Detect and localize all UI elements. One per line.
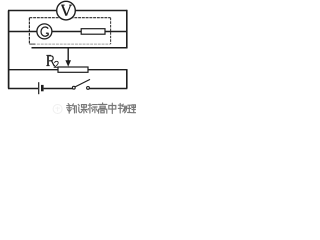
switch S [72,79,90,89]
wire resistor to right [105,31,127,33]
wire left vertical [8,11,10,89]
wire R2 left [8,69,58,71]
slider arrow of R2 [65,48,71,67]
label R2 [46,55,59,67]
galvanometer G [37,24,52,39]
potentiometer R2 box [58,67,88,72]
char xin [67,104,77,114]
wire G row left [8,31,37,33]
dashed box (voltmeter under calibration) [29,18,110,44]
wire switch to right [89,88,127,90]
wire right vertical upper [126,10,128,49]
wire middle (slider feed) [32,47,128,49]
char zhong [109,103,116,113]
wire right vertical lower [126,69,128,88]
char li [128,105,136,113]
char wu [118,103,127,113]
battery [39,82,43,94]
char gao [98,103,107,113]
watermark text 新课标高中物理 [67,103,136,114]
wire G to resistor [52,31,81,33]
char biao [88,104,98,113]
wire R2 right [88,69,127,71]
resistor R (series box) [81,29,105,35]
wire battery to switch [44,88,73,90]
watermark logo [53,105,62,114]
char ke [78,104,87,113]
wire bottom left [8,88,38,90]
wire top right [75,10,127,12]
voltmeter V [57,1,76,20]
wire top left [8,10,57,12]
